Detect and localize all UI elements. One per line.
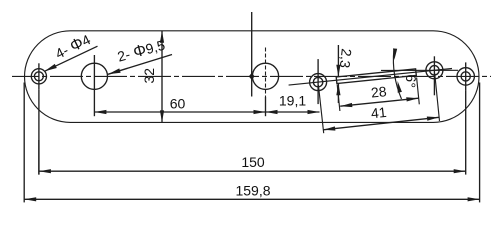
dimension 60 arrow right (254, 110, 266, 114)
leader arrow 2-phi9,5 (108, 68, 121, 74)
dimension 41 arrow left (323, 126, 335, 130)
horizontal centerline (12, 75, 491, 77)
dimension 150 arrow left (39, 169, 51, 173)
dimension 19,1 arrow left (266, 110, 278, 114)
extension line 41 right (435, 73, 440, 121)
pot hole 2 (phi9,5) (252, 63, 278, 89)
extension line 60/19,1 shared (pot2 centerline) (265, 97, 267, 116)
screw hole left (4-phi4) (34, 72, 43, 81)
dimension 2,3 line lower (337, 83, 339, 103)
extension line 150 left (screw hole centerline) (38, 89, 40, 174)
dimension 159,8 arrow right (468, 197, 480, 201)
dimension 2,3 line upper (337, 45, 339, 77)
extension line 28 right (417, 78, 420, 105)
extension line 150 bottom left (38, 140, 40, 175)
leader line 4-phi4 (45, 46, 98, 71)
dimension 19,1 arrow right (308, 110, 320, 114)
svg-text:60: 60 (170, 95, 186, 111)
extension line 159,8 left (23, 83, 25, 203)
extension line 159,8 right (479, 83, 481, 203)
angle 6deg arc (393, 51, 401, 100)
dimension 159,8 line (24, 198, 479, 200)
dimension 41 line (323, 117, 439, 130)
svg-text:150: 150 (241, 154, 265, 170)
angle 6deg arrow lower (398, 81, 402, 93)
svg-text:19,1: 19,1 (279, 92, 306, 108)
dimension 28 arrow right (406, 97, 418, 101)
switch screw hole 2 (430, 66, 439, 75)
dimension 60 line (94, 111, 265, 113)
dimension 150 arrow right (454, 169, 466, 173)
svg-text:28: 28 (370, 83, 387, 101)
angle 6deg arrow upper (393, 48, 397, 60)
svg-text:32: 32 (141, 68, 157, 84)
svg-text:159,8: 159,8 (235, 183, 270, 199)
dimension 60 arrow left (94, 110, 106, 114)
screw hole right (4-phi4) (461, 72, 470, 81)
dimension 2,3 arrow down (336, 65, 340, 77)
svg-text:6°: 6° (402, 74, 419, 89)
dimension 2,3 arrow up (336, 83, 340, 95)
extension line 41 left (318, 85, 323, 133)
plate outline (25, 31, 479, 123)
switch slot (336, 69, 416, 84)
switch screw hole 1 (313, 77, 322, 86)
dimension 32 arrow down (160, 110, 164, 122)
dimension 32 line (161, 31, 163, 123)
dimension 28 arrow left (340, 103, 352, 107)
pot hole 1 (phi9,5) (81, 63, 107, 89)
svg-text:41: 41 (370, 104, 387, 122)
dimension 159,8 arrow left (24, 197, 36, 201)
horizontal reference line for 6 deg angle (381, 69, 458, 71)
dimension 150 line (39, 170, 466, 172)
dimension 19,1 line (266, 111, 320, 113)
dimension 41 arrow right (427, 117, 439, 121)
leader line 2-phi9,5 (108, 55, 172, 75)
slot axis line (289, 69, 452, 86)
extension line 28 left (337, 85, 340, 112)
vertical construction line at pot2 left quadrant (251, 12, 253, 97)
extension line 150 right (screw hole centerline) (465, 90, 467, 174)
extension line 60 left (pot1 centerline) (93, 97, 95, 116)
dimension 32 arrow up (160, 31, 164, 43)
svg-text:2- Φ9,5: 2- Φ9,5 (116, 37, 168, 66)
point marker diamond (249, 73, 255, 80)
leader arrow 4-phi4 (45, 64, 57, 71)
dimension 28 line (340, 98, 418, 106)
svg-text:2,3: 2,3 (337, 48, 355, 69)
